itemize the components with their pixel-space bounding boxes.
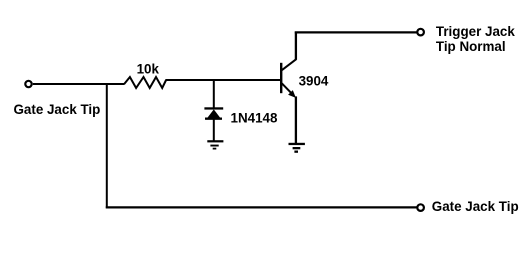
terminal: Gate Jack Tip output (open circle)	[417, 204, 424, 211]
ground: below diode D1	[207, 140, 223, 149]
wire: diode D1 anode to ground	[213, 120, 215, 141]
svg-text:Tip Normal: Tip Normal	[436, 39, 506, 54]
wire: collector to Trigger Jack terminal	[295, 31, 417, 33]
wire: input terminal to resistor R1	[33, 83, 125, 85]
ground: below transistor Q1 emitter	[289, 143, 305, 153]
node: junction of base wire and diode D1 branch	[213, 79, 215, 109]
svg-text:1N4148: 1N4148	[231, 110, 278, 125]
svg-text:Trigger Jack: Trigger Jack	[436, 24, 515, 39]
resistor R1 (zigzag)	[124, 77, 166, 88]
diode D1 1N4148 (cathode bar up, anode triangle below)	[204, 107, 223, 120]
wire: transistor Q1 collector up	[295, 32, 297, 60]
terminal: Gate Jack Tip input (open circle)	[25, 81, 31, 87]
svg-text:Gate Jack Tip: Gate Jack Tip	[432, 199, 519, 214]
node: junction of input wire and bottom branch	[106, 83, 108, 208]
transistor Q1 2N3904 NPN	[281, 59, 296, 98]
svg-text:3904: 3904	[299, 73, 329, 88]
wire: transistor Q1 emitter to ground	[295, 96, 297, 143]
wire: resistor R1 to transistor Q1 base	[166, 79, 281, 81]
label: Trigger Jack Tip Normal	[436, 24, 515, 54]
wire: bottom branch to Gate Jack Tip output	[106, 206, 417, 208]
terminal: Trigger Jack Tip Normal (open circle)	[417, 29, 424, 36]
svg-text:Gate Jack Tip: Gate Jack Tip	[14, 102, 101, 117]
svg-text:10k: 10k	[137, 62, 160, 77]
